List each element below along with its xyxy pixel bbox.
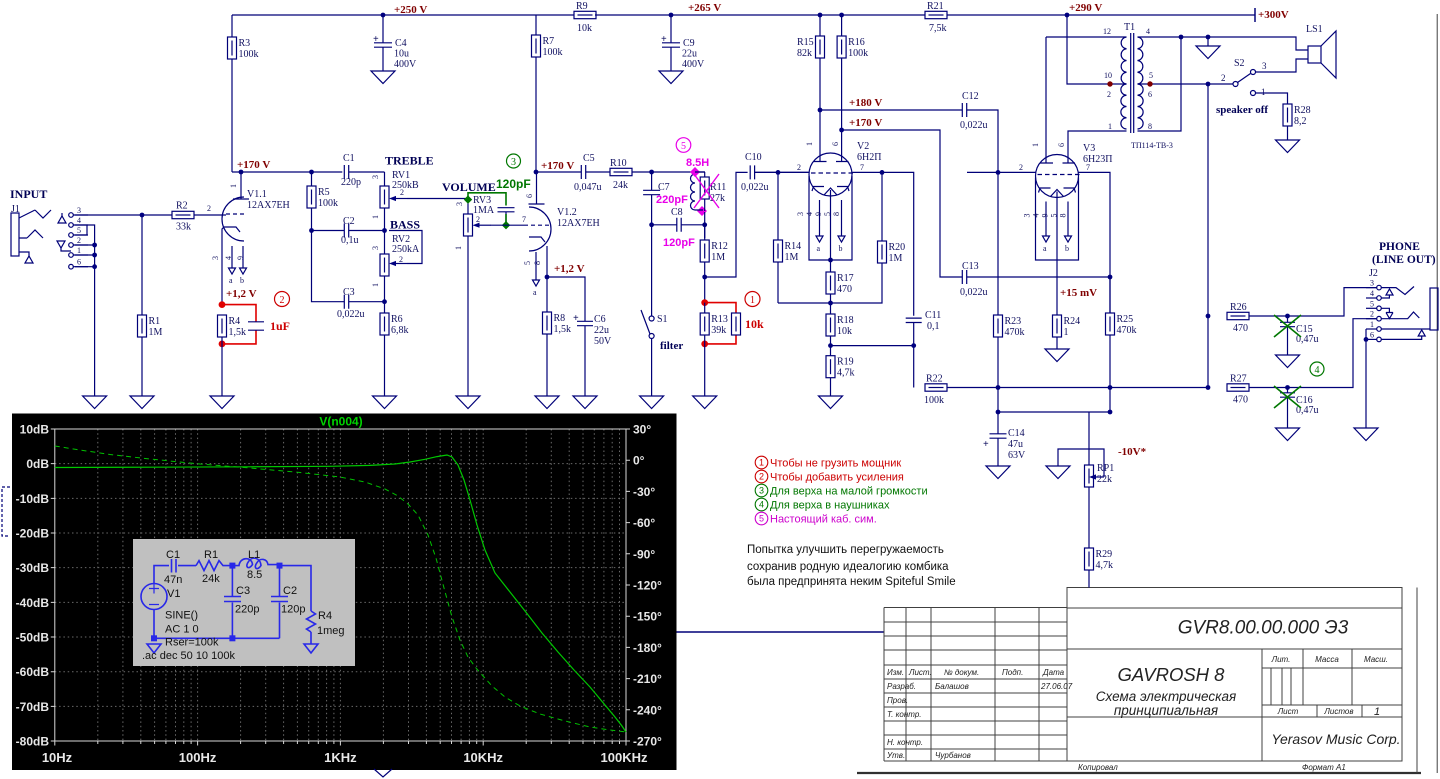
resistor R29: [1085, 487, 1114, 588]
svg-text:10dB: 10dB: [20, 423, 50, 437]
svg-text:+250 V: +250 V: [394, 4, 427, 16]
wire jack switching: [73, 225, 97, 396]
svg-text:R7: R7: [543, 36, 555, 47]
note mark 4: [1310, 362, 1324, 376]
svg-text:R9: R9: [576, 1, 588, 12]
node +180V: [818, 97, 883, 112]
svg-text:-30°: -30°: [633, 485, 655, 499]
svg-text:Попытка улучшить перегружаемос: Попытка улучшить перегружаемость: [747, 544, 944, 556]
svg-text:7: 7: [522, 215, 526, 224]
svg-text:V(n004): V(n004): [319, 415, 362, 429]
svg-text:2: 2: [399, 255, 403, 264]
svg-text:-50dB: -50dB: [16, 631, 50, 645]
svg-text:9: 9: [236, 256, 245, 260]
svg-text:V1: V1: [167, 588, 180, 600]
capacitor C2: [309, 216, 387, 246]
svg-text:C1: C1: [166, 549, 180, 561]
svg-text:-30dB: -30dB: [16, 561, 50, 575]
svg-text:a: a: [229, 276, 233, 285]
svg-text:2: 2: [1370, 310, 1374, 319]
svg-text:1: 1: [1064, 327, 1069, 338]
svg-text:R4: R4: [229, 316, 241, 327]
resistor R10: [610, 158, 705, 191]
svg-text:Чурбанов: Чурбанов: [935, 751, 971, 760]
svg-text:R14: R14: [785, 241, 802, 252]
svg-text:3: 3: [211, 256, 220, 260]
svg-text:0,047u: 0,047u: [574, 182, 602, 193]
svg-text:Для верха на малой громкости: Для верха на малой громкости: [770, 485, 928, 497]
title block (GOST stamp): [857, 14, 1437, 773]
pot RV1 TREBLE: [371, 154, 466, 231]
svg-text:220p: 220p: [341, 177, 361, 188]
svg-text:1M: 1M: [149, 327, 163, 338]
svg-text:V1.2: V1.2: [557, 207, 577, 218]
resistor R14: [774, 172, 802, 303]
svg-text:-80dB: -80dB: [16, 735, 50, 749]
ground tip below plot: [374, 769, 392, 777]
svg-text:8.5: 8.5: [247, 569, 262, 581]
resistor R1: [130, 213, 163, 409]
pot RV2 BASS: [371, 218, 422, 302]
capacitor C6: [547, 277, 612, 409]
svg-text:100k: 100k: [848, 48, 868, 59]
svg-text:50V: 50V: [594, 336, 612, 347]
wire +170V to C13: [842, 130, 963, 277]
capacitor C14: [983, 412, 1026, 479]
svg-text:b: b: [839, 244, 843, 253]
svg-text:2: 2: [759, 472, 764, 482]
svg-text:Копировал: Копировал: [1078, 763, 1118, 772]
svg-text:6: 6: [1370, 330, 1374, 339]
svg-text:100k: 100k: [924, 395, 944, 406]
resistor R13: [693, 303, 728, 409]
svg-text:220p: 220p: [235, 604, 259, 616]
ground (input jack): [83, 396, 107, 409]
svg-text:2: 2: [476, 215, 480, 224]
svg-text:b: b: [240, 276, 244, 285]
svg-text:470: 470: [1233, 323, 1248, 334]
svg-text:470k: 470k: [1117, 325, 1137, 336]
wire V3 plate to T1 pin12: [1046, 37, 1127, 163]
svg-text:400V: 400V: [394, 59, 417, 70]
resistor R23: [994, 172, 1025, 412]
svg-text:R24: R24: [1064, 316, 1081, 327]
svg-text:R5: R5: [318, 187, 330, 198]
svg-text:R28: R28: [1294, 105, 1311, 116]
svg-text:+180 V: +180 V: [849, 97, 882, 109]
svg-text:V3: V3: [1083, 143, 1095, 154]
node +170V stage2: [534, 160, 575, 174]
svg-text:a: a: [1043, 244, 1047, 253]
svg-text:220pF: 220pF: [656, 194, 688, 206]
svg-text:5: 5: [759, 514, 764, 524]
svg-text:S2: S2: [1234, 58, 1245, 69]
ground (speaker return): [1196, 37, 1220, 59]
node +170V (V1.1 plate): [237, 159, 270, 174]
svg-text:5: 5: [1149, 71, 1153, 80]
node +1,2V (V1.2 cathode): [545, 263, 585, 279]
svg-text:1meg: 1meg: [317, 625, 345, 637]
wire +180V to C12: [820, 109, 962, 111]
capacitor C8: [649, 207, 707, 249]
wire V2 pin7: [852, 170, 914, 316]
svg-text:VOLUME: VOLUME: [442, 180, 496, 194]
resistor R4: [210, 315, 246, 409]
svg-text:R22: R22: [926, 374, 943, 385]
svg-text:-70dB: -70dB: [16, 700, 50, 714]
svg-text:INPUT: INPUT: [10, 187, 47, 201]
numbered notes list: [755, 456, 927, 525]
svg-text:№ докум.: № докум.: [944, 668, 979, 677]
svg-text:4: 4: [77, 216, 81, 225]
svg-text:R16: R16: [848, 37, 865, 48]
capacitor C10: [741, 152, 809, 193]
svg-text:1M: 1M: [711, 252, 725, 263]
svg-text:R6: R6: [391, 314, 403, 325]
svg-text:J2: J2: [1369, 268, 1378, 279]
svg-text:0,1: 0,1: [927, 321, 940, 332]
svg-text:+170 V: +170 V: [541, 160, 574, 172]
svg-text:C3: C3: [236, 585, 250, 597]
svg-text:+290 V: +290 V: [1069, 2, 1102, 14]
svg-text:ТП114-ТВ-3: ТП114-ТВ-3: [1131, 141, 1173, 150]
resistor R21: [925, 1, 947, 34]
svg-text:1uF: 1uF: [270, 319, 290, 333]
svg-text:filter: filter: [660, 340, 683, 352]
svg-text:Чтобы добавить усиления: Чтобы добавить усиления: [770, 471, 904, 483]
svg-text:8,2: 8,2: [1294, 116, 1307, 127]
svg-text:C2: C2: [343, 216, 355, 227]
capacitor C15 (crossed out): [1274, 315, 1319, 368]
svg-text:1,5k: 1,5k: [229, 327, 247, 338]
svg-text:3: 3: [77, 206, 81, 215]
phase curve (dashed green): [55, 446, 626, 732]
svg-text:1: 1: [229, 184, 238, 188]
switch S1 filter: [640, 225, 684, 409]
svg-text:RP1: RP1: [1097, 463, 1114, 474]
cut-off component at left margin: [2, 487, 10, 536]
svg-text:+265 V: +265 V: [688, 2, 721, 14]
resistor R26: [1206, 288, 1377, 334]
resistor R6: [373, 302, 409, 409]
svg-text:10: 10: [1104, 71, 1112, 80]
svg-text:-10V*: -10V*: [1118, 446, 1147, 458]
terminal +300V: [1255, 8, 1289, 22]
note mark 3: [507, 154, 521, 168]
svg-text:(LINE OUT): (LINE OUT): [1372, 254, 1436, 266]
svg-text:C12: C12: [962, 91, 979, 102]
note mark 2: [275, 292, 290, 307]
svg-text:R4: R4: [318, 610, 332, 622]
svg-text:9: 9: [1041, 214, 1050, 218]
capacitor C4: [371, 15, 417, 84]
svg-text:Формат А1: Формат А1: [1302, 763, 1346, 772]
svg-text:C13: C13: [962, 261, 979, 272]
svg-text:L1: L1: [248, 549, 260, 561]
svg-text:C11: C11: [925, 310, 941, 321]
resistor R18: [826, 303, 854, 348]
svg-text:3: 3: [796, 212, 805, 216]
svg-text:GVR8.00.00.000 Э3: GVR8.00.00.000 Э3: [1178, 618, 1349, 639]
svg-text:3: 3: [455, 202, 464, 206]
svg-text:Для верха в наушниках: Для верха в наушниках: [770, 499, 890, 511]
svg-text:6: 6: [1148, 90, 1152, 99]
svg-text:3: 3: [371, 246, 380, 250]
svg-text:R19: R19: [837, 357, 854, 368]
resistor R12: [700, 225, 728, 303]
svg-text:Схема электрическая: Схема электрическая: [1096, 689, 1237, 704]
resistor R20: [778, 172, 905, 303]
svg-text:12AX7EH: 12AX7EH: [557, 218, 600, 229]
svg-text:24k: 24k: [613, 180, 628, 191]
svg-text:+: +: [373, 34, 379, 45]
svg-text:Масса: Масса: [1315, 655, 1339, 664]
double triode V2: [796, 141, 881, 260]
svg-text:-60dB: -60dB: [16, 665, 50, 679]
svg-text:R23: R23: [1005, 316, 1022, 327]
capacitor C1: [341, 153, 385, 188]
svg-text:1: 1: [1108, 122, 1112, 131]
svg-text:5: 5: [1370, 299, 1374, 308]
svg-text:AC 1 0: AC 1 0: [165, 624, 199, 636]
svg-text:22u: 22u: [594, 325, 609, 336]
svg-text:Настоящий каб. сим.: Настоящий каб. сим.: [770, 513, 877, 525]
LTspice inset simulation schematic: [133, 539, 355, 666]
resistor R28: [1256, 93, 1311, 153]
wire plot to title block: [677, 631, 885, 633]
svg-text:-150°: -150°: [633, 610, 662, 624]
svg-text:+: +: [983, 439, 989, 450]
svg-text:C6: C6: [594, 314, 606, 325]
svg-text:1: 1: [1370, 320, 1374, 329]
svg-text:V1.1: V1.1: [247, 189, 267, 200]
capacitor C16 (crossed out): [1274, 386, 1319, 441]
svg-text:1,5k: 1,5k: [554, 324, 572, 335]
svg-text:100KHz: 100KHz: [601, 750, 648, 765]
svg-text:Пров.: Пров.: [887, 696, 908, 705]
wire speaker tap down: [1207, 84, 1209, 388]
svg-text:R20: R20: [889, 242, 906, 253]
resistor R22: [924, 374, 1208, 407]
label PHONE LINE OUT: [1372, 241, 1436, 266]
svg-text:+170 V: +170 V: [237, 159, 270, 171]
node +265V: [669, 2, 722, 17]
svg-text:2: 2: [1221, 73, 1226, 83]
svg-text:470: 470: [1233, 395, 1248, 406]
svg-text:12AX7EH: 12AX7EH: [247, 200, 290, 211]
svg-text:1M: 1M: [785, 252, 799, 263]
capacitor C11: [831, 310, 942, 388]
svg-text:5: 5: [823, 212, 832, 216]
svg-text:-240°: -240°: [633, 703, 662, 717]
right phase axis labels: [633, 423, 662, 749]
svg-text:R15: R15: [797, 37, 814, 48]
resistor R3: [228, 15, 259, 172]
svg-text:4: 4: [759, 500, 764, 510]
svg-text:R12: R12: [711, 241, 728, 252]
svg-text:1: 1: [77, 246, 81, 255]
svg-text:250kB: 250kB: [392, 180, 419, 191]
svg-text:3: 3: [1262, 61, 1267, 71]
svg-text:1: 1: [759, 458, 764, 468]
svg-text:Лит.: Лит.: [1271, 655, 1291, 664]
svg-text:-60°: -60°: [633, 516, 655, 530]
svg-text:0,022u: 0,022u: [960, 287, 988, 298]
svg-text:100k: 100k: [318, 198, 338, 209]
wire V3 grid: [967, 170, 1036, 175]
svg-text:6,8k: 6,8k: [391, 325, 409, 336]
svg-text:120pF: 120pF: [663, 237, 695, 249]
resistor R8: [535, 277, 571, 409]
svg-text:2: 2: [1107, 90, 1111, 99]
note text Spiteful Smile: [747, 544, 956, 588]
svg-text:2: 2: [400, 188, 404, 197]
svg-text:R27: R27: [1230, 374, 1247, 385]
wire RV3 wiper to V1.2 grid: [490, 224, 528, 226]
svg-text:R1: R1: [204, 549, 218, 561]
svg-text:250kA: 250kA: [392, 244, 420, 255]
svg-text:PHONE: PHONE: [1379, 241, 1420, 253]
svg-text:Балашов: Балашов: [935, 682, 969, 691]
svg-text:82k: 82k: [797, 48, 812, 59]
svg-text:12: 12: [1103, 27, 1111, 36]
svg-text:10k: 10k: [577, 23, 592, 34]
svg-text:+300V: +300V: [1258, 9, 1289, 21]
svg-text:1: 1: [1031, 143, 1040, 147]
svg-text:6Н2П: 6Н2П: [857, 152, 881, 163]
wire +250V rail: [232, 14, 1255, 16]
double triode V3: [1019, 143, 1112, 260]
svg-text:a: a: [533, 288, 537, 297]
svg-text:1M: 1M: [889, 253, 903, 264]
node +15mV / resistor R24: [1045, 260, 1097, 362]
svg-text:7,5k: 7,5k: [929, 23, 947, 34]
svg-text:BASS: BASS: [390, 218, 420, 232]
wire R12 tap to C10: [705, 172, 748, 277]
red mod: 10k across R13: [701, 299, 764, 347]
svg-text:Листов: Листов: [1323, 707, 1353, 716]
svg-text:4: 4: [1032, 214, 1041, 218]
svg-text:1: 1: [805, 142, 814, 146]
svg-text:C1: C1: [343, 153, 355, 164]
svg-text:C10: C10: [745, 152, 762, 163]
svg-text:3: 3: [511, 157, 516, 168]
wire T1 pin4 out: [1138, 35, 1309, 131]
svg-text:C4: C4: [395, 38, 407, 49]
svg-text:+1,2 V: +1,2 V: [226, 288, 257, 300]
svg-text:C9: C9: [683, 38, 695, 49]
resistor R16: [837, 13, 868, 162]
svg-text:V2: V2: [857, 141, 869, 152]
svg-text:1: 1: [371, 283, 380, 287]
svg-text:22u: 22u: [682, 49, 697, 60]
resistor R11 (crossed out): [694, 172, 726, 211]
svg-text:была предпринята неким Spitefu: была предпринята неким Spiteful Smile: [747, 576, 956, 588]
svg-text:3: 3: [759, 486, 764, 496]
svg-text:Разраб.: Разраб.: [887, 682, 916, 691]
capacitor C5: [536, 153, 610, 193]
gain curve V(n004) solid green: [55, 455, 626, 732]
wire V2 grid: [755, 170, 809, 175]
svg-text:4: 4: [1370, 289, 1374, 298]
svg-text:10k: 10k: [745, 317, 764, 331]
triode V1.1: [211, 172, 290, 304]
svg-text:10k: 10k: [837, 326, 852, 337]
svg-text:400V: 400V: [682, 59, 705, 70]
svg-text:R26: R26: [1230, 302, 1247, 313]
svg-text:Чтобы не грузить мощник: Чтобы не грузить мощник: [770, 457, 901, 469]
svg-text:TREBLE: TREBLE: [385, 154, 434, 168]
svg-text:1: 1: [750, 295, 755, 306]
svg-text:120pF: 120pF: [496, 177, 531, 191]
capacitor C13: [960, 261, 1110, 298]
svg-text:9: 9: [814, 212, 823, 216]
pot RV3 VOLUME: [442, 180, 496, 409]
svg-text:27.06.07: 27.06.07: [1040, 682, 1073, 691]
svg-text:.ac dec 50 10 100k: .ac dec 50 10 100k: [142, 650, 235, 662]
svg-text:10u: 10u: [394, 49, 409, 60]
svg-text:+1,2 V: +1,2 V: [554, 263, 585, 275]
svg-text:5: 5: [523, 261, 532, 265]
capacitor C12: [960, 91, 998, 172]
svg-text:4: 4: [805, 212, 814, 216]
svg-text:7: 7: [1086, 163, 1090, 172]
svg-text:100k: 100k: [543, 47, 563, 58]
svg-text:8: 8: [1148, 122, 1152, 131]
jack J2: [1366, 268, 1438, 342]
speaker LS1: [1256, 24, 1337, 78]
svg-text:8.5H: 8.5H: [686, 157, 709, 169]
svg-text:8: 8: [832, 212, 841, 216]
svg-text:2: 2: [77, 236, 81, 245]
svg-text:0,1u: 0,1u: [341, 235, 359, 246]
svg-text:33k: 33k: [176, 222, 191, 233]
svg-text:C2: C2: [283, 585, 297, 597]
note mark 5: [676, 138, 691, 153]
svg-text:5: 5: [77, 226, 81, 235]
svg-text:R8: R8: [554, 313, 566, 324]
svg-text:+: +: [661, 34, 667, 45]
resistor R2: [172, 201, 226, 233]
svg-text:24k: 24k: [202, 573, 220, 585]
red mod: capacitor 1uF across R4: [219, 301, 290, 347]
svg-text:-210°: -210°: [633, 672, 662, 686]
svg-text:5: 5: [1050, 214, 1059, 218]
svg-text:speaker off: speaker off: [1216, 104, 1268, 116]
svg-text:6: 6: [1057, 143, 1066, 147]
svg-text:3: 3: [1370, 279, 1374, 288]
wire V3 plate to T1 pin1: [1068, 131, 1127, 163]
capacitor C9: [659, 15, 705, 84]
svg-text:C14: C14: [1008, 428, 1025, 439]
svg-text:100k: 100k: [239, 49, 259, 60]
wire +290 to T1 tap: [1067, 15, 1127, 87]
wire V1.1 plate row: [232, 171, 342, 173]
resistor R5: [307, 170, 338, 231]
svg-text:+: +: [573, 313, 579, 324]
svg-text:6: 6: [525, 194, 534, 198]
svg-text:принципиальная: принципиальная: [1114, 703, 1218, 718]
svg-text:0dB: 0dB: [26, 457, 49, 471]
green mod: 120pF treble bleed: [464, 177, 531, 229]
svg-text:b: b: [1065, 244, 1069, 253]
x axis labels: [42, 750, 648, 765]
wire T1 secondary tap: [1138, 81, 1234, 86]
svg-text:R21: R21: [927, 1, 944, 12]
svg-text:C8: C8: [671, 207, 683, 218]
svg-text:7: 7: [860, 163, 864, 172]
svg-text:R29: R29: [1096, 549, 1113, 560]
